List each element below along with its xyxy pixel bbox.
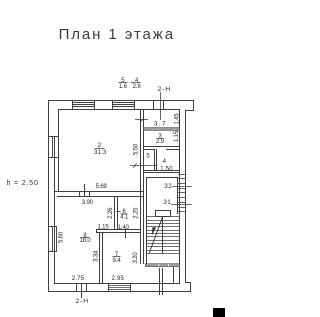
entrance door leader bottom [81, 292, 83, 298]
leader for label 31 [172, 204, 192, 206]
title План 1 этажа [59, 26, 175, 43]
svg-text:4: 4 [163, 159, 167, 165]
top wall window W1 glazing [73, 101, 95, 110]
svg-text:3.90: 3.90 [82, 200, 94, 206]
svg-text:1.15: 1.15 [97, 225, 109, 231]
svg-text:1.50: 1.50 [160, 166, 173, 172]
left wall window W3 [49, 137, 59, 158]
svg-text:18.0: 18.0 [79, 238, 91, 244]
shaft inner line [177, 178, 179, 214]
svg-text:5: 5 [146, 153, 150, 159]
svg-text:5.60: 5.60 [59, 231, 65, 243]
stair stringer [162, 217, 164, 254]
top wall segment dividers [154, 101, 164, 110]
stair direction line [150, 217, 163, 253]
svg-text:2.25: 2.25 [134, 207, 140, 219]
stair treads [147, 217, 180, 254]
svg-text:4.1: 4.1 [120, 214, 129, 220]
outer wall outline [49, 101, 194, 292]
hall west wall [141, 110, 144, 264]
bottom wall pier ticks [77, 284, 87, 292]
svg-text:2.8: 2.8 [133, 84, 142, 90]
svg-text:2.26: 2.26 [108, 207, 114, 219]
room 7 north wall [97, 230, 141, 233]
svg-text:5.50: 5.50 [133, 143, 139, 155]
dimension line near room 3.7 [136, 119, 148, 122]
svg-text:1.6: 1.6 [119, 84, 128, 90]
concrete wall below room 3.7 (gray) [144, 128, 180, 131]
stair landing box [156, 211, 171, 217]
wall between room 8 and room 6 [115, 197, 118, 230]
svg-text:1.15: 1.15 [174, 130, 180, 142]
room label 8/18.0 [79, 233, 91, 244]
svg-text:3.34: 3.34 [93, 250, 99, 262]
stair west line [146, 178, 148, 264]
rooms 4/5 south wall [144, 171, 180, 173]
stair arrow head [152, 227, 156, 235]
room label 6/4.1 [117, 209, 130, 221]
svg-text:План 1 этажа: План 1 этажа [59, 26, 175, 43]
door mark 1.40 [125, 230, 127, 238]
svg-text:2.9: 2.9 [156, 139, 165, 145]
svg-text:2-Н: 2-Н [158, 86, 172, 93]
room label 7/9.4 [113, 252, 122, 264]
leader from 2-Н to room 3.7 [160, 93, 162, 120]
svg-text:1.45: 1.45 [174, 113, 180, 125]
svg-text:3.20: 3.20 [133, 252, 139, 264]
pier line right of entrance [173, 267, 175, 284]
bottom wall window W5 [109, 284, 131, 292]
svg-text:31.3: 31.3 [94, 150, 107, 156]
svg-text:9.4: 9.4 [113, 258, 122, 264]
dimension line at hall [131, 164, 157, 168]
room 3 south wall [144, 147, 180, 150]
svg-text:32: 32 [164, 183, 172, 190]
svg-text:2.95: 2.95 [112, 276, 125, 282]
wall between room 8 and room 7 [100, 233, 103, 284]
black corner mark [213, 308, 225, 317]
left wall inner line lower [55, 137, 180, 284]
left wall inner line upper [58, 110, 60, 192]
stairwell entrance door jambs [160, 269, 163, 295]
svg-text:1.40: 1.40 [118, 225, 130, 231]
room label 4/2.8 [131, 78, 142, 90]
leader for label 32 [173, 186, 192, 188]
svg-text:3.7: 3.7 [154, 121, 167, 128]
top wall inner line [59, 110, 180, 284]
wall between room 5 and room 4 [155, 150, 157, 171]
top wall window W2 glazing [113, 101, 135, 110]
svg-text:h = 2.50: h = 2.50 [7, 180, 39, 187]
room label 2/31.3 [94, 143, 107, 156]
left wall window W4 [49, 227, 57, 252]
room 2 south wall [55, 185, 144, 197]
svg-text:2-Н: 2-Н [75, 298, 89, 305]
room label 3/2.9 [156, 134, 165, 145]
vestibule top wall [147, 177, 178, 179]
svg-text:31: 31 [163, 199, 171, 206]
door swing marks on landing wall [158, 264, 159, 266]
svg-text:2.75: 2.75 [72, 276, 85, 282]
ceiling height note h = 2.50 [7, 180, 39, 187]
svg-text:5.69: 5.69 [96, 184, 108, 190]
concrete wall at stair bottom (gray) [145, 264, 179, 267]
room label 5/1.6 [119, 78, 128, 90]
right wall hatch rungs (vent shaft) [179, 175, 185, 212]
